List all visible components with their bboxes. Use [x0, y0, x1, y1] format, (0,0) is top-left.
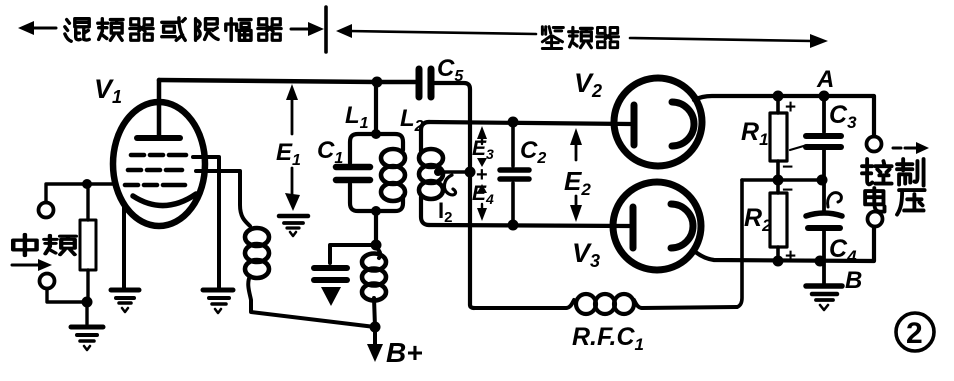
svg-text:V3: V3	[572, 238, 600, 271]
svg-text:+: +	[785, 97, 796, 118]
svg-text:I2: I2	[438, 198, 452, 226]
svg-text:C3: C3	[829, 101, 857, 132]
svg-text:V1: V1	[94, 74, 122, 107]
svg-text:E4: E4	[472, 182, 494, 207]
svg-text:R.F.C1: R.F.C1	[572, 323, 644, 354]
svg-text:+: +	[785, 246, 796, 267]
svg-text:E2: E2	[564, 166, 591, 199]
svg-text:−: −	[782, 180, 793, 201]
svg-text:A: A	[816, 66, 834, 93]
svg-text:C1: C1	[317, 137, 343, 167]
svg-text:−: −	[782, 157, 793, 178]
svg-text:B: B	[845, 267, 862, 294]
svg-text:B+: B+	[386, 337, 423, 368]
svg-text:V2: V2	[574, 68, 602, 101]
svg-text:E1: E1	[276, 139, 301, 169]
svg-text:2: 2	[906, 317, 923, 350]
svg-text:R1: R1	[741, 118, 769, 149]
svg-text:C5: C5	[437, 55, 464, 85]
svg-text:C2: C2	[520, 137, 546, 167]
svg-text:C4: C4	[829, 235, 857, 266]
svg-text:L1: L1	[345, 102, 369, 132]
svg-text:R2: R2	[744, 204, 772, 235]
